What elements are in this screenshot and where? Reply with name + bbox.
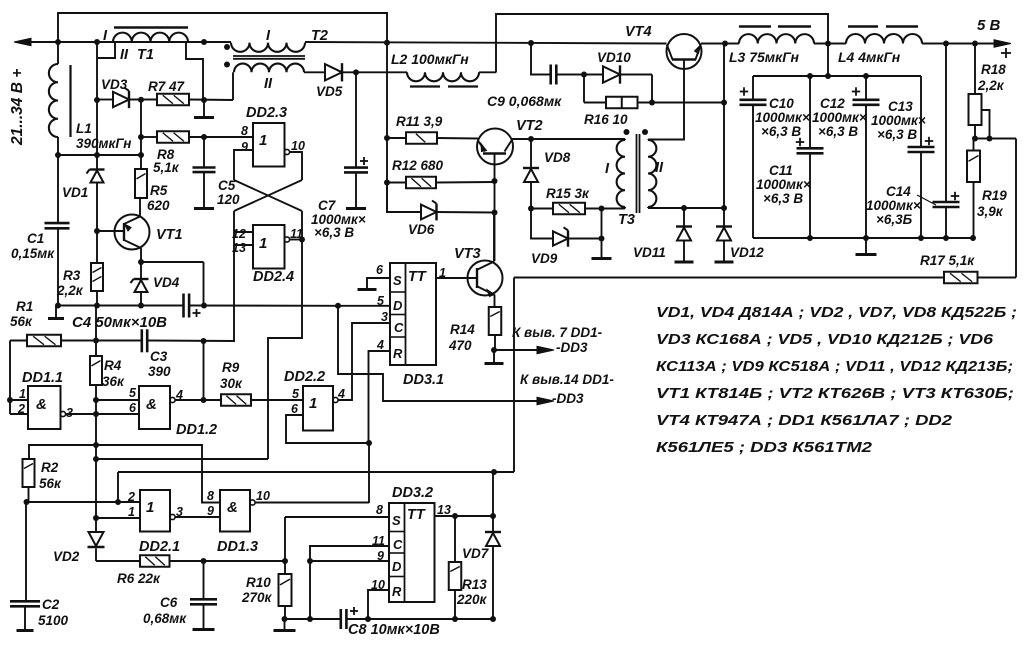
svg-text:1000мк×: 1000мк×	[755, 110, 810, 125]
label T3 winding II	[655, 160, 664, 176]
diode VD5	[325, 63, 342, 81]
svg-text:10: 10	[256, 489, 270, 503]
transformer T3 winding I	[617, 139, 625, 209]
svg-text:-DD3: -DD3	[552, 391, 584, 406]
logic gate DD2.2	[303, 386, 338, 431]
svg-text:C9 0,068мк: C9 0,068мк	[487, 93, 562, 109]
svg-text:T1: T1	[137, 47, 154, 63]
wire L2 to top rail	[479, 71, 496, 73]
label R1 56к	[10, 299, 33, 329]
wire VD5 to L2	[343, 69, 407, 75]
svg-text:R3: R3	[63, 268, 81, 283]
wire capacitor bank bottom rail	[753, 235, 976, 241]
wire DD3.2 output row	[435, 513, 497, 519]
ground under C2	[17, 629, 34, 632]
resistor R6	[96, 555, 288, 567]
wire DD3.1 R input	[369, 351, 391, 443]
label T1 winding II	[120, 47, 129, 63]
svg-text:2: 2	[17, 402, 25, 416]
svg-text:10: 10	[291, 139, 305, 153]
svg-text:&: &	[227, 499, 238, 516]
label C9 0,068мк	[487, 93, 562, 109]
resistor R14	[489, 307, 502, 353]
label VD3	[101, 77, 128, 92]
svg-text:2,2к: 2,2к	[56, 283, 84, 298]
label T2 winding I	[266, 28, 271, 44]
pin labels DD2.4	[232, 227, 303, 255]
svg-text:3,9к: 3,9к	[977, 204, 1004, 219]
svg-text:C13: C13	[888, 99, 913, 114]
svg-text:VT4 КТ947А ; DD1 К561ЛА7: VT4 КТ947А ; DD1 К561ЛА7 ; DD2	[656, 412, 953, 429]
wire bus x387 junctions	[384, 135, 390, 186]
svg-text:-DD3: -DD3	[556, 340, 588, 355]
resistor R7	[157, 94, 189, 106]
svg-text:DD2.1: DD2.1	[139, 539, 180, 555]
wire DD1.3 pin10 row	[255, 502, 369, 504]
logic gate DD1.3	[220, 490, 255, 532]
wire DD3.2 R input	[368, 590, 389, 619]
ground at DD3.1 S	[358, 288, 377, 291]
wire T3 II top to VT4 collector	[648, 70, 684, 140]
svg-text:13: 13	[437, 503, 451, 517]
svg-text:DD1.3: DD1.3	[217, 539, 258, 555]
label C7 1000мк x 6,3В	[311, 198, 366, 240]
resistor R19	[967, 139, 980, 239]
wire DD2.4 pins to C3 row	[234, 245, 235, 341]
wire R18 tap	[972, 110, 1016, 142]
svg-text:4: 4	[337, 387, 345, 401]
logic gate DD2.3	[253, 123, 290, 167]
transistor VT3	[468, 213, 503, 307]
svg-text:6: 6	[129, 401, 137, 415]
resistor R10	[279, 574, 292, 622]
label R18 2,2к	[977, 62, 1006, 93]
resistor R2	[23, 459, 35, 505]
wire bus x141	[138, 100, 144, 170]
flip-flop DD3.1	[390, 263, 436, 365]
transistor VT4	[667, 34, 702, 70]
svg-text:II: II	[264, 76, 273, 92]
inductor L3	[739, 27, 814, 44]
phase dots T3	[624, 129, 649, 135]
pin labels DD1.1	[17, 387, 73, 420]
svg-text:VD11: VD11	[633, 245, 666, 260]
zener diode VD6	[421, 201, 437, 221]
svg-text:VD3 КС168А ; VD5 , VD10 КД2: VD3 КС168А ; VD5 , VD10 КД212Б ; VD6	[656, 331, 994, 348]
resistor R18	[969, 44, 982, 139]
wire R4 bus x96	[93, 306, 99, 522]
svg-text:R: R	[392, 584, 402, 599]
transformer T2 core	[233, 56, 305, 59]
zener diode VD4	[131, 262, 149, 309]
svg-text:2,2к: 2,2к	[977, 78, 1005, 93]
ground under VD12	[715, 261, 734, 264]
capacitor C13	[908, 76, 935, 238]
wire DD1.1 pin3 to DD1.2 pin6	[66, 413, 139, 415]
svg-text:0,68мк: 0,68мк	[143, 611, 187, 626]
svg-text:&: &	[36, 396, 47, 413]
wire R8 to DD2.3 pin8	[189, 134, 253, 140]
label R12 680	[392, 158, 444, 173]
wire latch cross-coupling	[234, 150, 305, 245]
label R2 56к	[39, 460, 62, 491]
svg-text:R18: R18	[981, 62, 1006, 77]
capacitor C5	[193, 137, 216, 208]
wire R17 left to bus3	[513, 278, 515, 473]
transformer T3 core	[637, 134, 640, 213]
svg-text:C8 10мк×10В: C8 10мк×10В	[348, 622, 440, 638]
svg-text:C14: C14	[886, 184, 911, 199]
label C4 50мк x 10В	[72, 314, 167, 331]
svg-text:5: 5	[292, 387, 300, 401]
capacitor C1	[45, 223, 70, 228]
diode VD2	[88, 518, 105, 561]
ground under VD11	[675, 261, 694, 264]
svg-text:L2 100мкГн: L2 100мкГн	[391, 51, 469, 67]
transformer T1 core	[114, 26, 188, 28]
wire T1 secondary right leg	[186, 42, 203, 100]
svg-text:220к: 220к	[456, 592, 488, 607]
svg-text:R5: R5	[150, 183, 168, 198]
label R10 270к	[241, 575, 273, 605]
svg-text:DD1.1: DD1.1	[22, 370, 63, 386]
label DD3.1	[403, 372, 444, 388]
diode VD8	[523, 139, 539, 209]
svg-text:R14: R14	[450, 322, 475, 337]
svg-text:R7 47: R7 47	[148, 79, 186, 94]
label VD7	[462, 546, 490, 561]
svg-text:C10: C10	[769, 96, 794, 111]
label C3 390	[148, 349, 171, 379]
wire output arrow to pin14 DD1-DD3	[338, 306, 554, 405]
capacitor C3	[142, 329, 147, 352]
svg-text:1: 1	[19, 387, 26, 401]
svg-text:5100: 5100	[38, 613, 69, 628]
label T2 winding II	[264, 76, 273, 92]
svg-text:VT3: VT3	[454, 246, 481, 262]
svg-text:5,1к: 5,1к	[153, 160, 180, 175]
wire VD1-R3 bus x97	[94, 42, 100, 309]
svg-text:L1: L1	[76, 121, 92, 136]
label R13 220к	[456, 577, 488, 607]
label R8 5,1к	[153, 147, 180, 175]
svg-text:C1: C1	[27, 231, 44, 246]
svg-text:VD4: VD4	[153, 275, 180, 290]
label T3 winding I	[605, 161, 610, 177]
flip-flop DD3.2	[389, 503, 435, 602]
svg-text:C12: C12	[820, 96, 845, 111]
resistor R5	[135, 169, 147, 198]
svg-text:8: 8	[241, 124, 248, 138]
label DD1.2	[176, 422, 217, 438]
wire VD3-R7 row	[97, 97, 233, 103]
wire main input line 21..34V	[16, 42, 739, 44]
svg-text:VD12: VD12	[730, 245, 764, 260]
svg-text:56к: 56к	[39, 476, 62, 491]
transformer T2 winding II	[233, 64, 304, 100]
wire bus3 down leg	[117, 472, 119, 502]
inductor L4	[846, 27, 922, 44]
zener diode VD3	[113, 88, 129, 108]
wire DD3.2 C-D node	[307, 546, 389, 619]
zener diode VD1	[87, 170, 105, 183]
label input voltage 21..34В	[9, 69, 26, 146]
capacitor C10	[740, 76, 767, 238]
svg-text:×6,3 В: ×6,3 В	[818, 124, 858, 139]
svg-text:R2: R2	[41, 460, 59, 475]
label component types text block	[656, 304, 1017, 456]
svg-text:VD10: VD10	[597, 50, 631, 65]
node junction dots on main line	[55, 39, 728, 47]
svg-text:К выв. 7 DD1-: К выв. 7 DD1-	[512, 325, 603, 340]
wire VT4 emitter node down	[723, 44, 725, 209]
wire DD2.4 output jog to bus2	[268, 240, 302, 460]
label R11 3,9	[396, 114, 443, 129]
wire R17 right to R18 node	[1015, 139, 1017, 278]
capacitor C14	[917, 44, 960, 239]
svg-text:×6,3 В: ×6,3 В	[763, 191, 803, 206]
svg-text:5 В: 5 В	[977, 17, 1001, 34]
wire left column bus	[55, 42, 61, 309]
diode VD9	[531, 209, 605, 247]
svg-text:C: C	[394, 320, 404, 335]
resistor R11	[387, 132, 478, 144]
svg-text:5: 5	[129, 386, 137, 400]
svg-text:DD3.2: DD3.2	[392, 485, 433, 501]
label К выв.7	[512, 325, 603, 355]
wire VD5 node down	[355, 73, 357, 168]
wire bus2 to DD2.1 pin1 node	[97, 458, 268, 460]
wire bus3	[118, 469, 514, 475]
svg-text:1: 1	[128, 505, 135, 519]
svg-text:10: 10	[371, 578, 385, 592]
svg-text:1: 1	[146, 499, 154, 516]
svg-text:VT2: VT2	[516, 118, 543, 134]
label VD2	[53, 549, 80, 564]
ground under R10	[274, 619, 296, 631]
inductor L2	[407, 72, 479, 86]
svg-text:R19: R19	[982, 188, 1007, 203]
svg-text:C7: C7	[318, 198, 337, 213]
svg-text:1000мк×: 1000мк×	[871, 113, 926, 128]
svg-text:9: 9	[207, 504, 214, 518]
wire DD3.2 S net	[285, 517, 389, 574]
svg-text:4: 4	[376, 338, 384, 352]
logic gate DD1.2	[139, 386, 175, 429]
svg-text:R: R	[393, 346, 403, 361]
svg-text:×6,3 В: ×6,3 В	[877, 127, 917, 142]
pin labels DD3.2	[371, 503, 451, 592]
wire R1-C3 row	[10, 338, 235, 345]
resistor R3	[91, 263, 103, 291]
svg-text:R13: R13	[462, 577, 487, 592]
wire C4 row	[57, 303, 341, 309]
label R5 620	[147, 183, 170, 213]
label R14 470	[448, 322, 475, 353]
label VD8	[544, 150, 571, 165]
wire VD6 row	[387, 183, 494, 213]
svg-text:VD5: VD5	[316, 84, 343, 99]
label К выв.14	[520, 372, 614, 406]
label C13	[871, 99, 926, 142]
wire input arrow left	[14, 38, 31, 46]
resistor R1	[27, 335, 61, 347]
svg-text:1: 1	[309, 395, 317, 412]
svg-text:VD1: VD1	[62, 185, 88, 200]
label DD2.2	[284, 369, 325, 385]
label T1	[137, 47, 154, 63]
svg-text:9: 9	[241, 140, 248, 154]
label R7 47	[148, 79, 186, 94]
svg-text:VD3: VD3	[101, 77, 128, 92]
label T1 winding I	[103, 28, 108, 44]
svg-text:R16 10: R16 10	[584, 112, 628, 127]
svg-text:270к: 270к	[241, 590, 273, 605]
wire DD1.3 pin8 net	[96, 445, 220, 503]
svg-text:6: 6	[376, 263, 384, 277]
svg-text:DD2.2: DD2.2	[284, 369, 325, 385]
wire R2 branch	[29, 445, 96, 459]
svg-text:VT1: VT1	[156, 227, 183, 243]
label VT1	[156, 227, 183, 243]
logic gate DD2.1	[140, 490, 175, 532]
svg-text:R1: R1	[16, 299, 33, 314]
svg-text:&: &	[146, 396, 157, 413]
wire DD3.1 output to VT3	[436, 277, 476, 279]
svg-text:DD2.3: DD2.3	[246, 105, 287, 121]
label R9 30к	[220, 360, 243, 391]
diode VD12	[716, 208, 732, 262]
resistor R16	[584, 75, 727, 109]
capacitor C7	[344, 157, 368, 208]
transformer T2 winding I	[231, 43, 305, 52]
wire row y155	[57, 152, 144, 158]
diode VD11	[676, 208, 692, 262]
wire R9 to DD2.2 pin5	[251, 399, 303, 401]
svg-text:II: II	[120, 47, 129, 63]
label C6 0,68мк	[143, 595, 187, 626]
svg-text:2: 2	[127, 490, 135, 504]
label C2 5100	[38, 597, 69, 628]
label R3 2,2к	[56, 268, 84, 298]
svg-text:8: 8	[207, 489, 214, 503]
svg-text:TT: TT	[408, 269, 427, 285]
svg-text:36к: 36к	[102, 374, 125, 389]
wire top border left section	[58, 13, 387, 213]
label L1 390мкГн	[76, 121, 131, 151]
wire DD2.1 pin1 row	[96, 517, 140, 519]
svg-text:C4 50мк×10В: C4 50мк×10В	[72, 314, 167, 331]
wire VT2 emitter-collector rows	[492, 136, 626, 261]
svg-text:3: 3	[66, 406, 73, 420]
ground under C5	[194, 207, 214, 210]
wire DD1.2 pin stubs	[96, 400, 139, 414]
svg-text:VD8: VD8	[544, 150, 571, 165]
svg-text:1: 1	[259, 235, 267, 252]
capacitor C4	[184, 294, 201, 318]
svg-text:TT: TT	[407, 507, 426, 523]
label VD4	[153, 275, 180, 290]
pin labels DD2.2	[291, 387, 345, 416]
svg-text:6: 6	[291, 402, 299, 416]
pin labels DD2.1	[127, 490, 183, 519]
svg-text:C6: C6	[160, 595, 178, 610]
svg-text:S: S	[392, 513, 401, 528]
label R6 22к	[117, 571, 161, 586]
wire DD2.2 output to DD3.1 C input	[338, 323, 390, 400]
diode VD7	[485, 472, 501, 619]
label DD2.4	[253, 269, 294, 285]
wire capacitor bank top rail	[753, 44, 921, 80]
ground under C6	[193, 628, 215, 631]
svg-text:C: C	[393, 537, 403, 552]
svg-text:1000мк×: 1000мк×	[756, 177, 811, 192]
wire 5V output line	[814, 40, 1011, 48]
svg-text:R9: R9	[222, 360, 240, 375]
svg-text:R4: R4	[104, 358, 122, 373]
svg-text:11: 11	[372, 534, 385, 548]
pin labels DD3.1	[376, 263, 446, 352]
label C5 120	[217, 178, 240, 207]
wire DD2.1 out to DD1.3 pin9	[175, 516, 220, 518]
transistor VT2	[477, 129, 513, 182]
svg-text:21...34 В +: 21...34 В +	[9, 69, 26, 146]
svg-text:8: 8	[376, 503, 383, 517]
svg-text:3: 3	[381, 310, 388, 324]
resistor R9	[221, 394, 251, 406]
label R17 5,1к	[920, 253, 975, 268]
svg-text:1000мк×: 1000мк×	[812, 110, 867, 125]
svg-text:R15 3к: R15 3к	[546, 186, 590, 201]
transistor VT1	[97, 198, 150, 262]
label plus at 5V output	[1001, 48, 1011, 58]
svg-text:C5: C5	[218, 178, 236, 193]
wire DD1.2 output row	[175, 341, 221, 403]
ground under capacitor bank	[856, 238, 877, 255]
logic gate DD2.4	[253, 225, 290, 269]
ground under C7	[346, 207, 366, 210]
svg-text:56к: 56к	[10, 314, 33, 329]
svg-text:L3 75мкГн: L3 75мкГн	[729, 49, 799, 65]
capacitor C6	[190, 561, 217, 629]
svg-text:R6 22к: R6 22к	[117, 571, 161, 586]
label R16 10	[584, 112, 628, 127]
svg-text:1000мк×: 1000мк×	[866, 198, 921, 213]
svg-text:R11 3,9: R11 3,9	[396, 114, 443, 129]
svg-text:T3: T3	[618, 212, 635, 228]
svg-text:T2: T2	[311, 28, 328, 44]
capacitor C9	[551, 65, 587, 85]
svg-text:R12 680: R12 680	[392, 158, 444, 173]
wire C9 branch	[531, 43, 551, 75]
ground under R14	[485, 350, 504, 364]
pin labels DD1.3	[207, 489, 270, 518]
svg-text:0,15мк: 0,15мк	[11, 246, 55, 261]
resistor R8	[141, 131, 189, 143]
svg-text:VT4: VT4	[625, 24, 652, 40]
label L2 100мкГн	[391, 51, 469, 67]
label VD10	[597, 50, 631, 65]
svg-text:D: D	[393, 298, 403, 313]
svg-text:1: 1	[259, 132, 267, 149]
resistor R13	[449, 516, 462, 619]
resistor R12	[387, 177, 493, 189]
svg-text:390: 390	[148, 364, 171, 379]
label VT4	[625, 24, 652, 40]
capacitor C2	[10, 502, 40, 630]
wire DD3.1 D input row	[338, 305, 390, 307]
wire DD2.1 pin2 row	[27, 499, 141, 505]
